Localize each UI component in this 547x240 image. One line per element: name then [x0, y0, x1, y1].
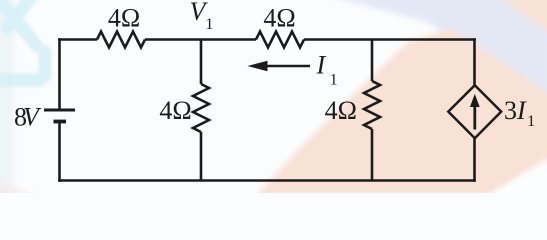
wire right-resistor branch upper (top wire down to R4) — [371, 40, 374, 82]
current I1 arrow (pointing left) — [248, 61, 311, 72]
svg-text:8V: 8V — [14, 103, 42, 132]
wire right-resistor branch lower (R4 to bottom wire) — [371, 129, 374, 181]
resistor R2 4ohm (top middle, horizontal) — [256, 32, 304, 48]
wire left branch upper (top wire down to battery) — [58, 38, 61, 110]
wire left branch lower (battery down to bottom wire) — [58, 122, 61, 182]
svg-text:4Ω: 4Ω — [263, 4, 295, 33]
wire far-right branch lower (current source down to bottom wire) — [473, 138, 476, 182]
wire top-left (left corner to R1) — [58, 38, 97, 41]
wire R2 to top-right corner — [304, 38, 476, 41]
battery short plate (-) — [54, 120, 67, 124]
watermark cyan glyph strokes top-left — [0, 0, 45, 80]
watermark left margin tint — [0, 0, 14, 203]
watermark peach swoosh — [256, 28, 547, 196]
wire far-right branch upper (top wire down to current source) — [473, 38, 476, 85]
current source arrow (pointing up) — [470, 94, 480, 130]
svg-text:4Ω: 4Ω — [159, 96, 191, 125]
battery source 8V plates — [44, 110, 75, 122]
battery long plate (+) — [44, 109, 75, 112]
resistor R1 4ohm (top left, horizontal) — [97, 32, 145, 48]
watermark pink bottom-left corner — [0, 181, 42, 196]
wire R1 to node V1 — [145, 38, 256, 41]
watermark lavender region top-right — [322, 0, 547, 105]
watermark peach corner top-right — [494, 0, 547, 34]
resistor R3 4ohm (middle, vertical) — [193, 84, 209, 132]
resistor R4 4ohm (right, vertical) — [364, 81, 380, 129]
watermark white bottom-right corner — [487, 158, 547, 196]
wire middle branch upper (node V1 down to R3) — [200, 40, 203, 85]
wire bottom — [58, 179, 476, 182]
svg-text:4Ω: 4Ω — [108, 4, 140, 33]
wire middle branch lower (R3 to bottom wire) — [200, 132, 203, 181]
dependent current source diamond — [448, 85, 501, 138]
svg-text:4Ω: 4Ω — [325, 96, 357, 125]
